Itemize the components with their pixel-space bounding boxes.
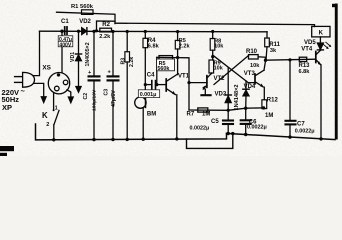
svg-text:BM: BM (147, 111, 156, 117)
svg-text:2.2k: 2.2k (99, 34, 111, 40)
svg-text:3k: 3k (270, 48, 277, 54)
wire top R1 rail (57, 12, 116, 23)
wire VT2 base (189, 82, 207, 84)
svg-text:R12: R12 (267, 98, 279, 104)
wire VT1 collector jog (177, 58, 189, 110)
resistor R9 (209, 60, 214, 74)
svg-text:R10: R10 (246, 49, 258, 55)
wire VT3 emitter to R12 (263, 87, 265, 100)
diode VD2 (82, 28, 87, 35)
diode VD1 (75, 31, 81, 92)
LED VD5 (317, 42, 331, 50)
svg-text:1M: 1M (202, 111, 210, 117)
svg-text:R2: R2 (102, 22, 110, 28)
node socket feed (60, 30, 63, 33)
svg-text:10k: 10k (214, 65, 224, 71)
svg-text:XS: XS (42, 65, 51, 72)
border bottom left artifact (0, 146, 14, 151)
svg-text:C5: C5 (211, 119, 219, 125)
wire R10 to R11 (258, 57, 265, 60)
svg-text:~: ~ (21, 87, 26, 96)
svg-text:C4: C4 (147, 72, 155, 78)
label C4 value box (138, 90, 159, 98)
svg-text:0.0022μ: 0.0022μ (247, 125, 267, 131)
transistor VT1 (166, 75, 177, 139)
label R6 value box (157, 59, 175, 72)
diode VD4 (243, 81, 249, 108)
wire main rail (40, 30, 268, 33)
microphone BM (135, 97, 146, 139)
svg-text:2.2k: 2.2k (179, 44, 191, 50)
wire R13 rail (266, 59, 316, 60)
transistor VT2 (201, 73, 211, 95)
plug XP (15, 72, 35, 87)
svg-text:0.0022μ: 0.0022μ (190, 126, 210, 132)
resistor R12 (244, 100, 267, 110)
capacitor C5 (223, 121, 233, 134)
capacitor C7 (286, 60, 296, 137)
svg-text:400V: 400V (59, 42, 71, 48)
svg-text:1N4005×2: 1N4005×2 (85, 42, 91, 66)
wire socket feed (61, 31, 63, 72)
svg-text:VT2: VT2 (214, 76, 226, 82)
wire cross coupling B (213, 55, 255, 82)
resistor R8 (210, 32, 215, 61)
svg-text:6.8k: 6.8k (299, 69, 311, 75)
svg-text:R11: R11 (269, 42, 280, 48)
wire ground rail right (227, 133, 336, 139)
svg-text:0.001μ: 0.001μ (140, 92, 157, 98)
wire R1 stair nook (97, 21, 116, 31)
wire feed line to relay (115, 23, 315, 26)
svg-text:R3: R3 (121, 58, 127, 65)
capacitor C2 (89, 31, 100, 139)
svg-text:560k: 560k (157, 66, 169, 72)
resistor R4 (143, 32, 148, 98)
node dot VD1 (77, 30, 80, 33)
svg-text:R1 560k: R1 560k (71, 4, 94, 10)
svg-text:6.8k: 6.8k (148, 44, 160, 50)
resistor R6 (159, 56, 173, 61)
border top right speck (332, 4, 336, 7)
wire ground loop (187, 134, 233, 149)
resistor R7 wire (189, 108, 264, 110)
wire left drop to plug (34, 31, 40, 75)
resistor R10 (249, 55, 259, 59)
transistor VT3 (255, 62, 265, 88)
wire socket right pin arrow (67, 90, 73, 103)
svg-text:47μ/6V: 47μ/6V (111, 90, 117, 107)
resistor R6 wire (157, 56, 177, 58)
resistor R7 (198, 108, 208, 112)
wire socket to switch (53, 93, 55, 110)
svg-text:VD3: VD3 (215, 92, 227, 98)
svg-text:VD4: VD4 (244, 84, 256, 90)
svg-text:XP: XP (2, 103, 12, 112)
svg-text:C2: C2 (83, 93, 89, 100)
wire R6 left drop (156, 57, 158, 84)
relay K (312, 26, 330, 37)
wire ground rail left (36, 124, 227, 140)
switch K (53, 109, 59, 140)
resistor R5 (175, 32, 180, 75)
wire relay to VD5 (319, 37, 321, 43)
transistor VT4 (316, 50, 322, 138)
svg-text:VD1: VD1 (70, 52, 76, 62)
svg-text:10k: 10k (250, 63, 260, 69)
svg-text:K: K (319, 31, 324, 37)
socket XS (48, 73, 69, 94)
capacitor C3 (108, 32, 119, 140)
svg-text:VT1: VT1 (178, 74, 190, 80)
node dot stair (95, 29, 98, 32)
svg-text:VT3: VT3 (244, 71, 256, 77)
svg-text:1: 1 (55, 106, 58, 112)
svg-text:100μ/10V: 100μ/10V (91, 89, 97, 111)
svg-text:C1: C1 (61, 19, 69, 25)
node dots bottom rail (52, 132, 323, 142)
resistor R3 (125, 32, 130, 140)
capacitor C6 (241, 108, 251, 134)
capacitor C4 (145, 81, 166, 89)
capacitor C1 (65, 27, 67, 34)
svg-text:VD5: VD5 (304, 40, 316, 46)
svg-text:1N4148×2: 1N4148×2 (234, 85, 240, 111)
svg-text:0.0022μ: 0.0022μ (295, 129, 315, 135)
diode VD3 (225, 68, 231, 120)
resistor R11 (265, 32, 270, 60)
svg-text:1M: 1M (265, 113, 273, 119)
svg-text:K: K (42, 111, 48, 120)
border right edge (335, 4, 338, 140)
svg-text:C3: C3 (103, 89, 109, 96)
svg-text:VT4: VT4 (301, 47, 313, 53)
svg-text:C7: C7 (297, 121, 305, 127)
wire cross coupling A (214, 56, 249, 85)
resistor R13 (299, 57, 306, 61)
svg-text:2.2k: 2.2k (129, 57, 135, 67)
resistor R2 (100, 28, 112, 32)
svg-text:VD2: VD2 (79, 19, 91, 25)
svg-text:R7: R7 (187, 112, 195, 118)
resistor R1 (82, 10, 94, 15)
label C1 value box (58, 36, 73, 49)
svg-text:2: 2 (46, 122, 49, 128)
wire plug neutral arrow (34, 83, 46, 102)
svg-text:10k: 10k (214, 43, 224, 49)
